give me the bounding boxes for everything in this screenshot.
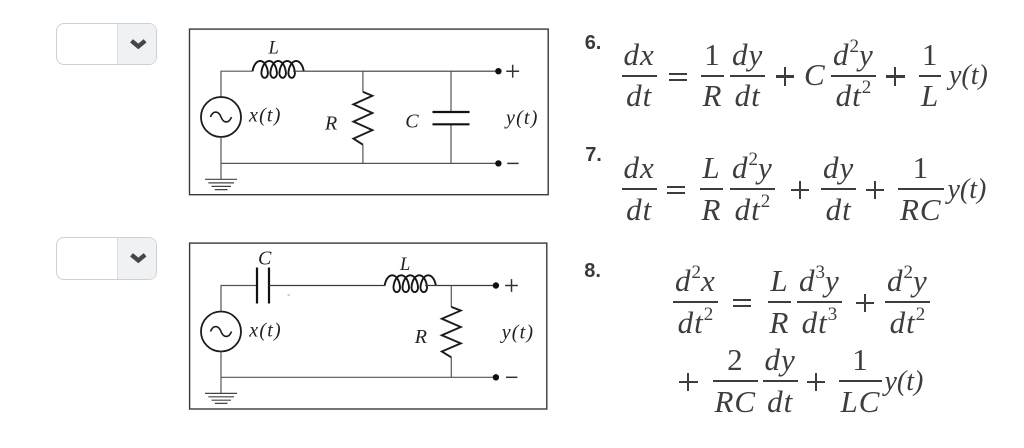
resistor R2 [442, 307, 461, 357]
circuit 1 : RLC low-pass [186, 23, 552, 198]
minus terminal [506, 376, 517, 378]
ground [205, 393, 237, 403]
wire mid top [269, 285, 385, 287]
resistor R1 [353, 92, 372, 145]
resistor R1 branch wire [362, 71, 364, 163]
capacitor C2 plates [257, 268, 269, 304]
resistor R2 branch wire [450, 286, 452, 378]
voltage source V2 [201, 312, 241, 352]
minus terminal [507, 162, 518, 164]
wire top left [221, 71, 253, 97]
ground [205, 179, 237, 189]
wire bottom [221, 162, 498, 164]
svg-text:y(t): y(t) [500, 322, 535, 344]
node - (dot) [495, 160, 501, 166]
sine symbol [211, 112, 232, 122]
plus terminal [506, 65, 519, 78]
svg-text:L: L [399, 255, 410, 275]
circuit 2 : CLR high-pass [186, 238, 552, 412]
wire top right [293, 70, 498, 72]
capacitor C1 branch wire [450, 71, 452, 163]
svg-text:y(t): y(t) [504, 107, 539, 129]
svg-text:L: L [268, 39, 279, 59]
equation 8 line 1 [584, 261, 601, 281]
wire bottom [221, 376, 496, 378]
box frame [190, 243, 547, 409]
svg-text:R: R [414, 326, 427, 348]
sine symbol [211, 327, 232, 337]
inductor L2 [385, 275, 436, 292]
equation 6 [585, 33, 602, 53]
box frame [190, 29, 549, 195]
dropdown 1 [56, 23, 157, 66]
wire top left [221, 286, 257, 312]
wire source bottom [220, 137, 222, 179]
dropdown 2 [56, 237, 157, 280]
svg-text:R: R [324, 112, 337, 134]
svg-text:C: C [258, 247, 272, 269]
voltage source V1 [201, 97, 241, 137]
node + (dot) [495, 68, 501, 74]
equation 8 line 2 [679, 373, 698, 392]
capacitor C1 plates [433, 112, 470, 124]
svg-text:x(t): x(t) [248, 105, 282, 127]
inductor L1 [253, 61, 304, 78]
wire source bottom [220, 352, 222, 394]
svg-text:x(t): x(t) [248, 319, 282, 341]
equation 7 [585, 145, 602, 165]
speck artifact [287, 294, 289, 296]
plus terminal [505, 279, 518, 292]
node + (dot) [493, 282, 499, 288]
wire top right [425, 285, 496, 287]
svg-text:C: C [405, 110, 419, 132]
node - (dot) [493, 374, 499, 380]
